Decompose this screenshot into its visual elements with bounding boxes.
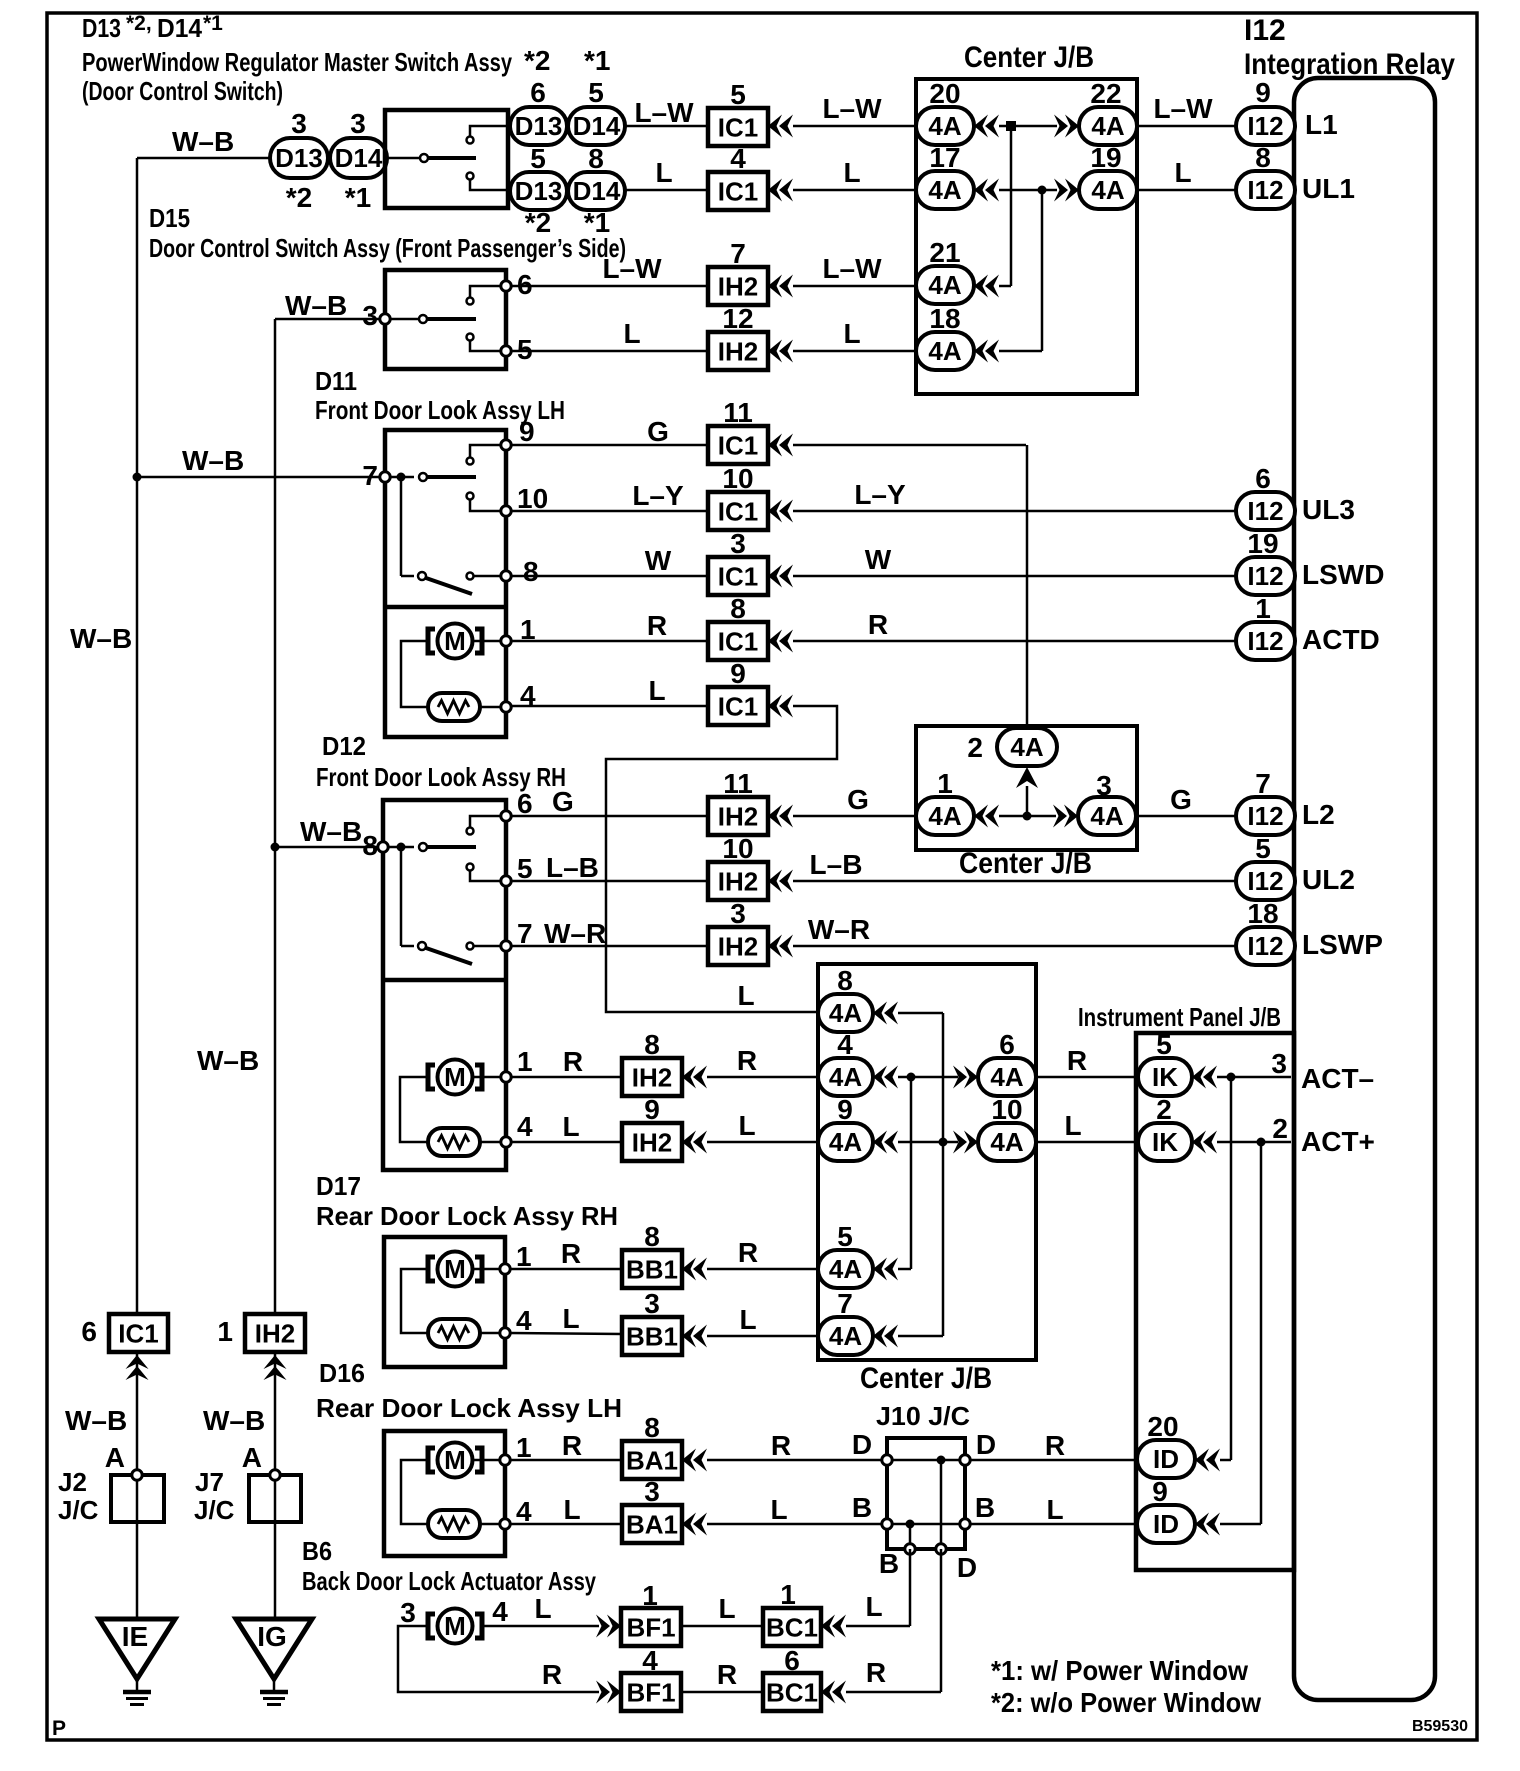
svg-text:R: R	[542, 1659, 562, 1690]
svg-text:L: L	[843, 157, 860, 188]
svg-text:10: 10	[517, 483, 548, 514]
svg-text:6: 6	[530, 77, 546, 108]
svg-text:PowerWindow Regulator Master S: PowerWindow Regulator Master Switch Assy	[82, 47, 512, 77]
svg-text:7: 7	[730, 238, 746, 269]
svg-text:4: 4	[516, 1496, 532, 1527]
svg-text:4A: 4A	[928, 801, 961, 831]
svg-text:4: 4	[492, 1596, 508, 1627]
svg-text:8: 8	[644, 1029, 660, 1060]
svg-text:D16: D16	[319, 1358, 365, 1388]
svg-text:D17: D17	[316, 1171, 361, 1201]
svg-text:W–R: W–R	[808, 914, 870, 945]
svg-text:L: L	[648, 675, 665, 706]
svg-text:I12: I12	[1247, 931, 1283, 961]
svg-text:BA1: BA1	[626, 1446, 678, 1476]
svg-text:UL2: UL2	[1302, 864, 1355, 895]
svg-text:IC1: IC1	[718, 562, 758, 592]
svg-text:4A: 4A	[990, 1127, 1023, 1157]
svg-text:R: R	[737, 1045, 757, 1076]
svg-text:UL1: UL1	[1302, 173, 1355, 204]
svg-text:D13: D13	[275, 143, 323, 173]
svg-text:L–W: L–W	[602, 253, 662, 284]
svg-text:L: L	[1046, 1494, 1063, 1525]
svg-text:I12: I12	[1247, 496, 1283, 526]
svg-text:1: 1	[1255, 593, 1271, 624]
svg-text:6: 6	[517, 269, 533, 300]
svg-text:W–B: W–B	[300, 816, 362, 847]
svg-text:A: A	[105, 1442, 125, 1473]
svg-text:Center J/B: Center J/B	[959, 847, 1092, 880]
svg-text:4A: 4A	[928, 175, 961, 205]
svg-text:12: 12	[722, 303, 753, 334]
svg-text:20: 20	[1147, 1411, 1178, 1442]
svg-text:I12: I12	[1247, 866, 1283, 896]
svg-text:2: 2	[967, 732, 983, 763]
svg-text:J10 J/C: J10 J/C	[876, 1401, 970, 1431]
svg-text:3: 3	[400, 1597, 416, 1628]
svg-text:4: 4	[516, 1305, 532, 1336]
svg-text:L: L	[738, 1110, 755, 1141]
svg-text:R: R	[771, 1430, 791, 1461]
svg-text:1: 1	[217, 1316, 233, 1347]
svg-text:4A: 4A	[829, 1254, 862, 1284]
svg-text:L: L	[1064, 1110, 1081, 1141]
svg-text:8: 8	[523, 556, 539, 587]
svg-text:1: 1	[517, 1046, 533, 1077]
svg-text:P: P	[52, 1717, 66, 1740]
svg-text:IH2: IH2	[718, 337, 758, 367]
svg-text:D14: D14	[335, 143, 383, 173]
svg-text:I12: I12	[1247, 626, 1283, 656]
svg-text:LSWD: LSWD	[1302, 559, 1384, 590]
svg-text:LSWP: LSWP	[1302, 929, 1383, 960]
svg-text:IH2: IH2	[718, 272, 758, 302]
svg-text:L: L	[563, 1494, 580, 1525]
svg-text:W: W	[645, 545, 672, 576]
svg-text:L: L	[562, 1303, 579, 1334]
svg-text:6: 6	[1255, 463, 1271, 494]
svg-text:3: 3	[350, 108, 366, 139]
svg-text:R: R	[563, 1046, 583, 1077]
svg-text:BB1: BB1	[626, 1255, 678, 1285]
svg-text:L–B: L–B	[546, 852, 599, 883]
svg-text:3: 3	[1096, 770, 1112, 801]
svg-text:18: 18	[929, 303, 960, 334]
svg-text:2: 2	[1272, 1113, 1288, 1144]
svg-text:4A: 4A	[1010, 732, 1043, 762]
svg-text:6: 6	[784, 1645, 800, 1676]
svg-text:5: 5	[517, 853, 533, 884]
svg-text:3: 3	[730, 528, 746, 559]
svg-text:L: L	[562, 1111, 579, 1142]
svg-text:J7: J7	[195, 1467, 224, 1497]
svg-text:5: 5	[1255, 833, 1271, 864]
svg-text:19: 19	[1247, 528, 1278, 559]
svg-text:BC1: BC1	[766, 1678, 818, 1708]
svg-text:8: 8	[588, 143, 604, 174]
svg-text:10: 10	[722, 833, 753, 864]
svg-text:IH2: IH2	[718, 867, 758, 897]
svg-text:4: 4	[642, 1645, 658, 1676]
svg-text:B6: B6	[302, 1536, 332, 1566]
svg-text:7: 7	[1255, 768, 1271, 799]
svg-text:10: 10	[722, 463, 753, 494]
svg-text:*1: *1	[345, 182, 371, 213]
svg-text:1: 1	[516, 1432, 532, 1463]
svg-text:8: 8	[1255, 142, 1271, 173]
svg-text:L: L	[623, 318, 640, 349]
svg-text:J/C: J/C	[194, 1495, 235, 1525]
svg-text:Center J/B: Center J/B	[860, 1362, 992, 1395]
svg-text:W–R: W–R	[544, 918, 606, 949]
svg-text:IK: IK	[1152, 1127, 1178, 1157]
svg-text:R: R	[561, 1238, 581, 1269]
svg-text:8: 8	[644, 1221, 660, 1252]
svg-text:L–W: L–W	[822, 253, 882, 284]
svg-text:4A: 4A	[1090, 801, 1123, 831]
svg-text:*1: *1	[584, 45, 610, 76]
svg-text:8: 8	[837, 965, 853, 996]
svg-text:L–W: L–W	[822, 93, 882, 124]
svg-text:ID: ID	[1153, 1509, 1179, 1539]
svg-text:R: R	[562, 1430, 582, 1461]
svg-text:J/C: J/C	[58, 1495, 99, 1525]
svg-text:Door Control Switch Assy (Fron: Door Control Switch Assy (Front Passenge…	[149, 233, 626, 263]
svg-text:L–W: L–W	[1153, 93, 1213, 124]
svg-text:Instrument Panel J/B: Instrument Panel J/B	[1078, 1002, 1281, 1032]
svg-text:IC1: IC1	[718, 497, 758, 527]
svg-text:W–B: W–B	[285, 290, 347, 321]
svg-text:D15: D15	[149, 203, 190, 233]
svg-text:IC1: IC1	[718, 627, 758, 657]
svg-text:IH2: IH2	[632, 1063, 672, 1093]
svg-text:11: 11	[723, 397, 753, 428]
svg-text:(Door Control Switch): (Door Control Switch)	[82, 76, 283, 106]
svg-text:1: 1	[780, 1579, 796, 1610]
svg-text:R: R	[1067, 1045, 1087, 1076]
svg-text:IC1: IC1	[718, 692, 758, 722]
svg-text:IK: IK	[1152, 1062, 1178, 1092]
svg-text:R: R	[738, 1237, 758, 1268]
svg-text:L–Y: L–Y	[632, 480, 684, 511]
svg-text:4A: 4A	[1091, 175, 1124, 205]
svg-text:IH2: IH2	[632, 1128, 672, 1158]
svg-text:3: 3	[362, 300, 378, 331]
svg-text:R: R	[717, 1659, 737, 1690]
svg-text:D12: D12	[322, 731, 366, 761]
svg-text:Rear Door Lock Assy RH: Rear Door Lock Assy RH	[316, 1201, 618, 1231]
svg-text:B: B	[852, 1492, 872, 1523]
svg-text:W–B: W–B	[65, 1405, 127, 1436]
svg-text:1: 1	[937, 768, 953, 799]
svg-text:4: 4	[730, 143, 746, 174]
svg-text:4A: 4A	[990, 1062, 1023, 1092]
svg-text:BB1: BB1	[626, 1322, 678, 1352]
svg-text:W–B: W–B	[197, 1045, 259, 1076]
svg-text:4A: 4A	[928, 336, 961, 366]
svg-text:IC1: IC1	[118, 1319, 158, 1349]
svg-text:D: D	[852, 1429, 872, 1460]
svg-text:4A: 4A	[829, 1321, 862, 1351]
svg-text:9: 9	[730, 658, 746, 689]
svg-text:L: L	[739, 1304, 756, 1335]
svg-text:D13: D13	[82, 13, 121, 43]
svg-text:IC1: IC1	[718, 113, 758, 143]
svg-text:D11: D11	[315, 366, 357, 396]
svg-text:ID: ID	[1153, 1444, 1179, 1474]
svg-text:20: 20	[929, 78, 960, 109]
svg-text:18: 18	[1247, 898, 1278, 929]
svg-text:L2: L2	[1302, 799, 1335, 830]
svg-text:D13: D13	[515, 111, 563, 141]
svg-text:21: 21	[929, 237, 960, 268]
svg-text:L1: L1	[1305, 109, 1338, 140]
svg-text:BF1: BF1	[626, 1613, 675, 1643]
svg-text:R: R	[866, 1657, 886, 1688]
svg-text:4A: 4A	[928, 270, 961, 300]
svg-text:*2: *2	[524, 45, 550, 76]
svg-text:IC1: IC1	[718, 177, 758, 207]
svg-text:3: 3	[644, 1476, 660, 1507]
svg-text:7: 7	[362, 460, 378, 491]
svg-text:Center J/B: Center J/B	[964, 41, 1094, 74]
svg-text:4A: 4A	[829, 1062, 862, 1092]
svg-text:R: R	[868, 609, 888, 640]
svg-text:ACTD: ACTD	[1302, 624, 1380, 655]
svg-text:W: W	[865, 544, 892, 575]
svg-text:I12: I12	[1247, 175, 1283, 205]
svg-text:4A: 4A	[829, 998, 862, 1028]
svg-text:5: 5	[730, 79, 746, 110]
svg-text:ACT–: ACT–	[1301, 1063, 1374, 1094]
svg-text:R: R	[647, 610, 667, 641]
svg-text:L–Y: L–Y	[854, 479, 906, 510]
svg-text:L: L	[534, 1593, 551, 1624]
svg-text:UL3: UL3	[1302, 494, 1355, 525]
svg-text:11: 11	[723, 768, 753, 799]
svg-text:9: 9	[519, 416, 535, 447]
svg-text:19: 19	[1090, 142, 1121, 173]
svg-text:ACT+: ACT+	[1301, 1126, 1375, 1157]
svg-text:W–B: W–B	[203, 1405, 265, 1436]
svg-text:IH2: IH2	[255, 1319, 295, 1349]
svg-text:6: 6	[517, 788, 533, 819]
svg-text:3: 3	[291, 108, 307, 139]
svg-text:3: 3	[644, 1288, 660, 1319]
svg-text:L: L	[865, 1591, 882, 1622]
svg-text:5: 5	[837, 1221, 853, 1252]
svg-text:L: L	[737, 980, 754, 1011]
svg-text:1: 1	[516, 1241, 532, 1272]
svg-text:IH2: IH2	[718, 932, 758, 962]
svg-text:8: 8	[730, 593, 746, 624]
svg-text:4: 4	[517, 1111, 533, 1142]
svg-text:D: D	[976, 1429, 996, 1460]
svg-text:D14: D14	[157, 13, 203, 43]
svg-text:7: 7	[837, 1288, 853, 1319]
svg-text:G: G	[552, 786, 574, 817]
svg-text:I12: I12	[1247, 801, 1283, 831]
svg-text:G: G	[1170, 784, 1192, 815]
svg-text:W–B: W–B	[172, 126, 234, 157]
svg-text:9: 9	[1255, 77, 1271, 108]
svg-text:A: A	[242, 1442, 262, 1473]
svg-text:*1: w/ Power Window: *1: w/ Power Window	[991, 1655, 1248, 1686]
svg-text:*1: *1	[203, 12, 223, 35]
svg-text:8: 8	[362, 830, 378, 861]
svg-text:G: G	[847, 784, 869, 815]
svg-text:L: L	[1174, 157, 1191, 188]
svg-text:4A: 4A	[928, 111, 961, 141]
svg-text:IE: IE	[122, 1621, 148, 1652]
svg-text:9: 9	[644, 1094, 660, 1125]
svg-text:D14: D14	[573, 111, 621, 141]
svg-text:IG: IG	[257, 1621, 287, 1652]
svg-text:L: L	[718, 1593, 735, 1624]
svg-text:B59530: B59530	[1412, 1718, 1468, 1735]
svg-text:BC1: BC1	[766, 1613, 818, 1643]
svg-text:*2,: *2,	[126, 12, 152, 35]
svg-text:I12: I12	[1244, 14, 1286, 47]
svg-text:D13: D13	[515, 176, 563, 206]
svg-text:R: R	[1045, 1430, 1065, 1461]
svg-text:7: 7	[517, 918, 533, 949]
svg-text:5: 5	[1156, 1029, 1172, 1060]
svg-text:I12: I12	[1247, 561, 1283, 591]
svg-text:I12: I12	[1247, 111, 1283, 141]
svg-text:L–W: L–W	[634, 97, 694, 128]
svg-text:9: 9	[837, 1094, 853, 1125]
svg-text:22: 22	[1090, 78, 1121, 109]
svg-text:D: D	[957, 1552, 977, 1583]
svg-text:2: 2	[1156, 1094, 1172, 1125]
svg-text:Rear Door Lock Assy LH: Rear Door Lock Assy LH	[316, 1393, 622, 1423]
svg-text:Integration Relay: Integration Relay	[1244, 48, 1455, 81]
svg-text:5: 5	[588, 77, 604, 108]
svg-text:3: 3	[730, 898, 746, 929]
svg-text:W–B: W–B	[182, 445, 244, 476]
svg-text:6: 6	[81, 1316, 97, 1347]
svg-text:*2: *2	[286, 182, 312, 213]
svg-text:*2: w/o Power Window: *2: w/o Power Window	[991, 1687, 1261, 1718]
svg-text:6: 6	[999, 1029, 1015, 1060]
svg-text:17: 17	[929, 142, 960, 173]
svg-text:3: 3	[1271, 1048, 1287, 1079]
svg-text:1: 1	[642, 1580, 658, 1611]
svg-text:G: G	[647, 416, 669, 447]
svg-text:B: B	[975, 1492, 995, 1523]
svg-text:L: L	[843, 318, 860, 349]
svg-text:L–B: L–B	[810, 849, 863, 880]
svg-text:4A: 4A	[829, 1127, 862, 1157]
svg-text:IC1: IC1	[718, 431, 758, 461]
svg-text:L: L	[655, 157, 672, 188]
svg-text:B: B	[879, 1548, 899, 1579]
svg-text:5: 5	[517, 334, 533, 365]
svg-text:Back Door Lock Actuator Assy: Back Door Lock Actuator Assy	[302, 1566, 596, 1596]
svg-text:9: 9	[1152, 1476, 1168, 1507]
svg-text:8: 8	[644, 1412, 660, 1443]
svg-text:4A: 4A	[1091, 111, 1124, 141]
svg-text:10: 10	[991, 1094, 1022, 1125]
svg-text:W–B: W–B	[70, 623, 132, 654]
svg-text:5: 5	[530, 143, 546, 174]
svg-text:D14: D14	[573, 176, 621, 206]
svg-text:L: L	[770, 1494, 787, 1525]
svg-text:IH2: IH2	[718, 802, 758, 832]
svg-text:BA1: BA1	[626, 1510, 678, 1540]
svg-text:J2: J2	[58, 1467, 87, 1497]
svg-text:BF1: BF1	[626, 1678, 675, 1708]
